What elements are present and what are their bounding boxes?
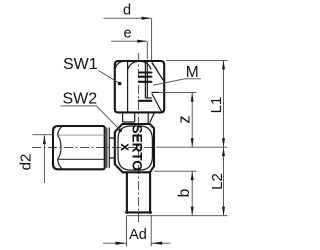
dim d arrow	[142, 17, 152, 20]
dim d2 arrow	[43, 135, 46, 144]
leader SW2 dot	[119, 129, 123, 133]
svg-text:L2: L2	[209, 173, 226, 190]
neck below nut left	[123, 112, 135, 122]
dim Ad line right	[151, 242, 170, 244]
nut SW2 facet lines	[58, 134, 105, 136]
leader SW2	[61, 106, 121, 131]
nut SW2 (left) outline	[53, 126, 105, 169]
tube end face	[126, 211, 151, 213]
dim z line	[191, 93, 193, 147]
boss neck right vertical	[147, 112, 149, 123]
ext line bottom (tube end to L2)	[127, 215, 228, 217]
dim e arrow	[137, 40, 147, 43]
dim d2 line	[43, 135, 45, 183]
svg-text:b: b	[176, 189, 193, 198]
dim b ext line top	[154, 170, 197, 172]
svg-text:x: x	[118, 143, 134, 151]
dim d line	[104, 17, 152, 19]
nut SW1 left facet line	[127, 62, 129, 113]
body stadium emblem	[118, 126, 152, 170]
dim L1 arrows	[222, 60, 225, 69]
nut SW1 (top) outline	[115, 61, 164, 112]
body boss outline octagon	[115, 124, 154, 172]
nut SW1 chamfer arcs	[115, 62, 122, 70]
svg-text:d: d	[123, 3, 131, 19]
svg-text:L1: L1	[208, 97, 225, 114]
centerline horizontal axis	[32, 146, 155, 148]
svg-text:SW1: SW1	[63, 56, 98, 73]
ferrule lines	[145, 97, 151, 99]
dim d ext line	[151, 18, 153, 60]
svg-text:e: e	[124, 26, 132, 42]
dim Ad ext lines	[126, 216, 128, 247]
svg-text:d2: d2	[17, 154, 34, 171]
svg-text:SW2: SW2	[63, 90, 98, 107]
dim z arrows	[191, 93, 194, 102]
tube below body	[126, 172, 128, 213]
leader SW1 dot	[118, 82, 122, 86]
dim Ad line left	[103, 242, 127, 244]
ext line mid (centerline to L1/L2)	[156, 146, 227, 148]
dim L2 arrows	[222, 147, 225, 156]
thread M cone diagonal upper	[152, 63, 163, 81]
dim b arrows	[191, 171, 194, 180]
leader SW1	[99, 71, 120, 84]
svg-text:z: z	[176, 115, 194, 123]
dim L2 line	[223, 148, 225, 216]
thread section bands	[139, 71, 152, 73]
svg-text:Ad: Ad	[129, 227, 147, 243]
neck to body	[109, 138, 115, 158]
ext line top (nut top to L1)	[166, 59, 227, 61]
dim z ext line top	[152, 91, 197, 93]
dim L1 line	[223, 61, 225, 147]
thread M cone diagonal lower	[152, 94, 162, 112]
dim e ext line	[146, 41, 148, 59]
nut SW2 end chamfer arcs	[58, 135, 62, 159]
boss chamfer diagonal to nut	[150, 112, 155, 123]
leader M	[153, 79, 201, 85]
dim e line	[111, 40, 147, 42]
centerline vertical axis	[138, 53, 140, 225]
dim b line	[191, 172, 193, 216]
washer lines at nut right	[106, 128, 108, 168]
dim d2 ext line	[32, 134, 54, 136]
thread bore lines	[144, 62, 146, 98]
